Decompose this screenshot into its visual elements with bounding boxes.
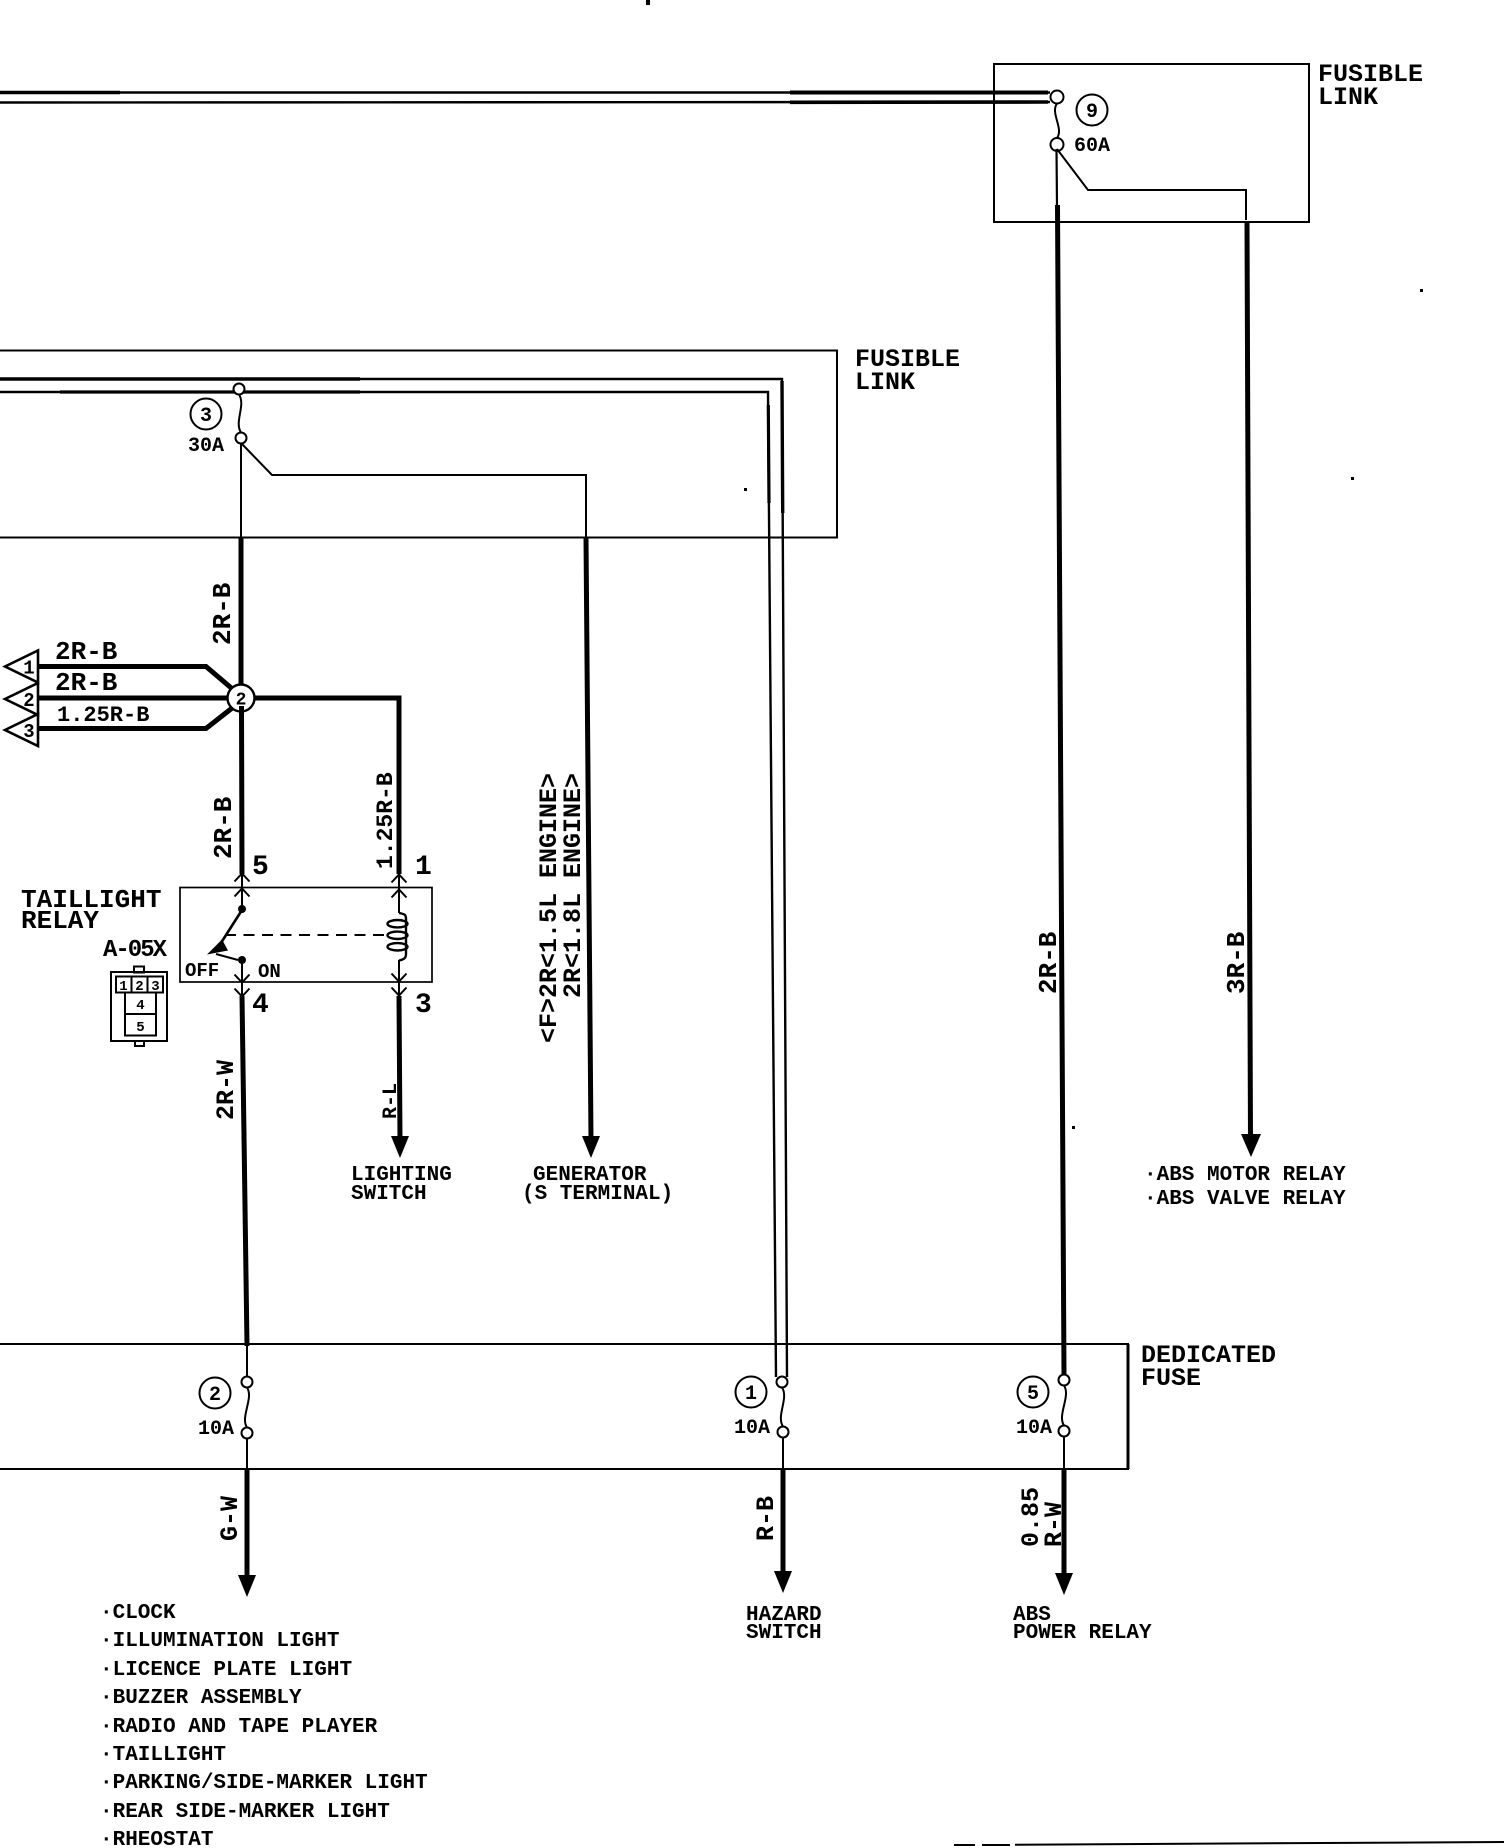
wire from triangle 3 to node 2 [38,705,236,729]
svg-text:10A: 10A [198,1418,234,1441]
relay pin 5 terminal [241,873,243,906]
fuse 2 designator circle [200,1378,231,1409]
wire to generator S terminal [586,538,591,1140]
label FUSIBLE LINK (upper right) [1318,60,1423,112]
fusible link box (upper right) [994,64,1309,222]
svg-text:2R-B: 2R-B [55,668,118,698]
fuse 1 designator circle [736,1377,767,1408]
svg-text:5: 5 [252,852,269,883]
svg-text:1: 1 [23,658,34,680]
svg-text:3: 3 [151,979,159,995]
label TAILLIGHT RELAY [21,885,161,936]
svg-text:4: 4 [252,990,269,1021]
dedicated fuse 5 element [1059,1375,1070,1437]
wire G-W (fuse 2 to clock etc.) [246,1438,248,1580]
svg-text:·LICENCE PLATE LIGHT: ·LICENCE PLATE LIGHT [100,1659,352,1682]
scan specks [744,289,1423,1129]
svg-text:·RHEOSTAT: ·RHEOSTAT [100,1829,213,1848]
fuse 5 designator circle [1018,1377,1049,1408]
svg-text:LINK: LINK [1318,83,1378,112]
connector triangle 3 [5,714,38,746]
svg-text:5: 5 [136,1020,144,1036]
label FUSIBLE LINK (left) [855,345,960,397]
svg-text:60A: 60A [1074,135,1110,158]
svg-text:1.25R-B: 1.25R-B [373,772,399,869]
relay switch throw link [216,954,238,960]
arrow to lighting switch [391,1136,409,1158]
svg-text:3: 3 [200,405,212,428]
svg-text:·BUZZER ASSEMBLY: ·BUZZER ASSEMBLY [100,1687,302,1710]
svg-text:2R-B: 2R-B [1034,931,1064,994]
wire 2R-W (pin 4 down to dedicated fuse 2) [242,996,247,1346]
wire 3R-B (to ABS relays) [1247,222,1251,1140]
svg-text:2R-B: 2R-B [209,796,239,859]
svg-text:LINK: LINK [855,368,915,397]
wire R-B (fuse 1 to hazard switch) [782,1437,784,1576]
svg-text:10A: 10A [734,1417,770,1440]
text ABS POWER RELAY [1013,1604,1152,1645]
relay switch arm arrowhead (OFF position) [207,940,228,955]
svg-text:2: 2 [135,979,143,995]
svg-text:30A: 30A [188,435,224,458]
scan speck (top) [646,0,650,5]
svg-text:SWITCH: SWITCH [351,1183,427,1206]
svg-text:3: 3 [415,990,432,1021]
svg-text:1.25R-B: 1.25R-B [57,703,149,728]
connector triangle 2 [5,683,38,715]
svg-text:·TAILLIGHT: ·TAILLIGHT [100,1744,226,1767]
svg-text:3: 3 [23,721,34,743]
svg-text:A-05X: A-05X [103,937,168,964]
relay pin 3 terminal [398,960,400,996]
svg-text:·PARKING/SIDE-MARKER LIGHT: ·PARKING/SIDE-MARKER LIGHT [100,1772,428,1795]
arrow to clock/illumination [238,1575,256,1597]
text HAZARD SWITCH [746,1604,822,1645]
text LIGHTING SWITCH [351,1164,452,1206]
page border fragment (bottom right) [954,1842,1504,1845]
wire node 2 to relay pin 1 [252,698,399,874]
wire 0.85 R-W (fuse 5 to ABS power relay) [1063,1436,1065,1578]
arrow to generator [582,1136,600,1158]
svg-text:10A: 10A [1016,1417,1052,1440]
svg-text:R-L: R-L [380,1083,403,1119]
relay switch ON contact dot [238,956,246,964]
svg-text:FUSE: FUSE [1141,1364,1201,1393]
svg-text:2R-B: 2R-B [55,637,118,667]
fusible link box (left) [0,351,837,538]
wire 2R-B (node 2 to relay pin 5) [239,706,245,874]
svg-text:2R-W: 2R-W [212,1060,241,1120]
svg-text:2R<1.8L ENGINE>: 2R<1.8L ENGINE> [559,773,588,998]
svg-text:·ABS MOTOR RELAY: ·ABS MOTOR RELAY [1144,1164,1346,1187]
text GENERATOR (S TERMINAL) [522,1164,673,1206]
svg-text:1: 1 [745,1383,757,1406]
relay switch fixed contact (pin 5 side) [238,905,246,913]
svg-text:ON: ON [258,961,281,983]
relay actuation dashed line [225,934,386,936]
wire: fuse 3 jog to generator drop [242,444,586,538]
svg-text:4: 4 [136,998,144,1014]
connector triangle 1 [5,651,38,683]
svg-text:(S TERMINAL): (S TERMINAL) [522,1183,673,1206]
svg-text:G-W: G-W [216,1496,245,1541]
fuse 3 designator circle [191,399,222,430]
relay switch arm [219,910,242,946]
main bus wire (middle, upper line) turning down to hazard fuse [0,379,787,1377]
label DEDICATED FUSE [1141,1341,1276,1393]
relay pin 4 terminal [241,960,243,996]
relay pin 1 terminal [398,874,400,913]
battery feed bus wire (top, lower line) [0,101,1050,104]
svg-text:·ABS VALVE RELAY: ·ABS VALVE RELAY [1144,1188,1346,1211]
dedicated fuse 2 element [242,1377,253,1439]
main bus wire (middle, lower line) turning down to hazard fuse [0,392,776,1377]
svg-text:RELAY: RELAY [21,906,99,936]
wire: fuse 3 straight down inside box [240,444,242,538]
svg-text:9: 9 [1086,101,1098,124]
svg-text:2: 2 [23,690,34,712]
svg-text:3R-B: 3R-B [1222,931,1252,994]
fusible link fuse 3 element [234,384,247,444]
svg-text:·ILLUMINATION LIGHT: ·ILLUMINATION LIGHT [100,1630,339,1653]
svg-text:2: 2 [209,1384,221,1407]
svg-text:R-W: R-W [1040,1502,1069,1547]
connector A-05X pin diagram [111,967,167,1047]
svg-text:1: 1 [415,852,432,883]
svg-text:SWITCH: SWITCH [746,1622,822,1645]
wire from triangle 2 to node 2 [38,696,230,701]
wire 2R-B (fuse 9 down to dedicated fuse 5) [1057,149,1065,1377]
svg-text:·RADIO AND TAPE PLAYER: ·RADIO AND TAPE PLAYER [100,1716,378,1739]
arrow to ABS power relay [1055,1573,1073,1595]
svg-text:POWER RELAY: POWER RELAY [1013,1622,1152,1645]
relay coil [388,913,408,961]
svg-text:2R-B: 2R-B [208,582,238,645]
wire from triangle 1 to node 2 [38,667,236,693]
svg-text:·REAR SIDE-MARKER LIGHT: ·REAR SIDE-MARKER LIGHT [100,1801,390,1824]
arrow to hazard switch [774,1571,792,1593]
fuse 9 designator circle [1077,95,1108,126]
fusible link fuse 9 element [1051,91,1064,152]
svg-text:5: 5 [1027,1383,1039,1406]
dedicated fuse 1 element [777,1377,789,1438]
battery feed bus wire (top, upper line) [0,91,1050,93]
dedicated fuse box [0,1344,1128,1469]
arrow to ABS motor/valve relays [1241,1134,1261,1157]
taillight relay box [180,888,432,983]
svg-text:·CLOCK: ·CLOCK [100,1602,176,1625]
svg-text:1: 1 [119,979,127,995]
text: ABS MOTOR RELAY / ABS VALVE RELAY [1144,1164,1346,1211]
node 2 junction circle [228,685,255,712]
load list fed by fuse 2 [100,1602,428,1848]
wire R-L (pin 3 to lighting switch) [399,996,400,1140]
wire: fuse 9 output jog to 3R-B drop [1057,149,1246,220]
svg-text:R-B: R-B [752,1496,781,1541]
svg-text:OFF: OFF [185,960,219,982]
wire into fuse 2 [246,1344,248,1377]
wire 2R-B (fuse 3 to node 2) [239,537,244,690]
